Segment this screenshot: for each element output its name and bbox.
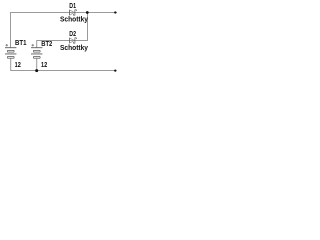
svg-text:Schottky: Schottky	[60, 43, 88, 52]
svg-text:12: 12	[15, 60, 21, 69]
svg-text:BT1: BT1	[15, 38, 27, 47]
svg-text:BT2: BT2	[41, 39, 52, 48]
svg-text:D2: D2	[69, 29, 76, 38]
svg-text:D1: D1	[69, 1, 76, 10]
svg-text:Schottky: Schottky	[60, 15, 88, 24]
svg-text:12: 12	[41, 60, 47, 69]
